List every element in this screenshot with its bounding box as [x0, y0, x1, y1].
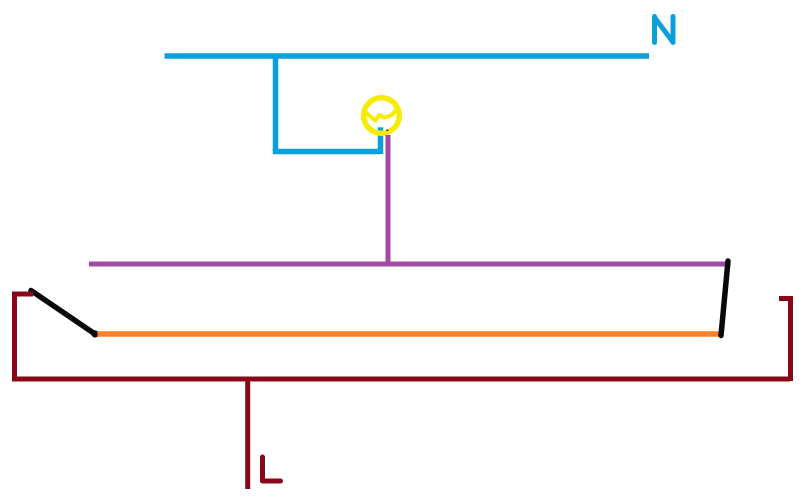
wire: traveller between switches (orange) [98, 331, 724, 337]
switch SW1 blade left (black) [31, 291, 95, 335]
wire: neutral drop vertical (turquoise) [273, 56, 279, 152]
wire: live feed right vertical (dark red) [788, 296, 793, 381]
wire: live feed right bracket top stub (dark red) [779, 296, 793, 301]
wire: switched-live horizontal strapping (purple) [89, 262, 731, 267]
lamp L1 filament squiggle [365, 109, 398, 121]
wire: live supply drop vertical (dark red) [245, 379, 250, 489]
wire: live feed bottom horizontal (dark red) [12, 377, 790, 382]
switch SW1 blade contact blob [91, 330, 98, 337]
wire: lamp switched-live vertical (purple) [386, 135, 391, 263]
wire: neutral bottom horizontal to lamp (turquoise) [273, 149, 381, 155]
node: stray dot at lamp base [386, 129, 388, 131]
wire: neutral top horizontal (turquoise) [165, 53, 650, 59]
label L (dark red, drawn) [263, 457, 281, 481]
switch SW2 blade right (black) [721, 261, 728, 336]
wire: lamp neutral stub vertical (turquoise) [378, 127, 384, 154]
wire: live feed left bracket top stub (dark red) [12, 292, 33, 297]
wire: live feed left vertical (dark red) [12, 292, 17, 379]
lamp L1 (yellow circle) [364, 98, 400, 134]
label N (turquoise, drawn) [655, 17, 674, 43]
